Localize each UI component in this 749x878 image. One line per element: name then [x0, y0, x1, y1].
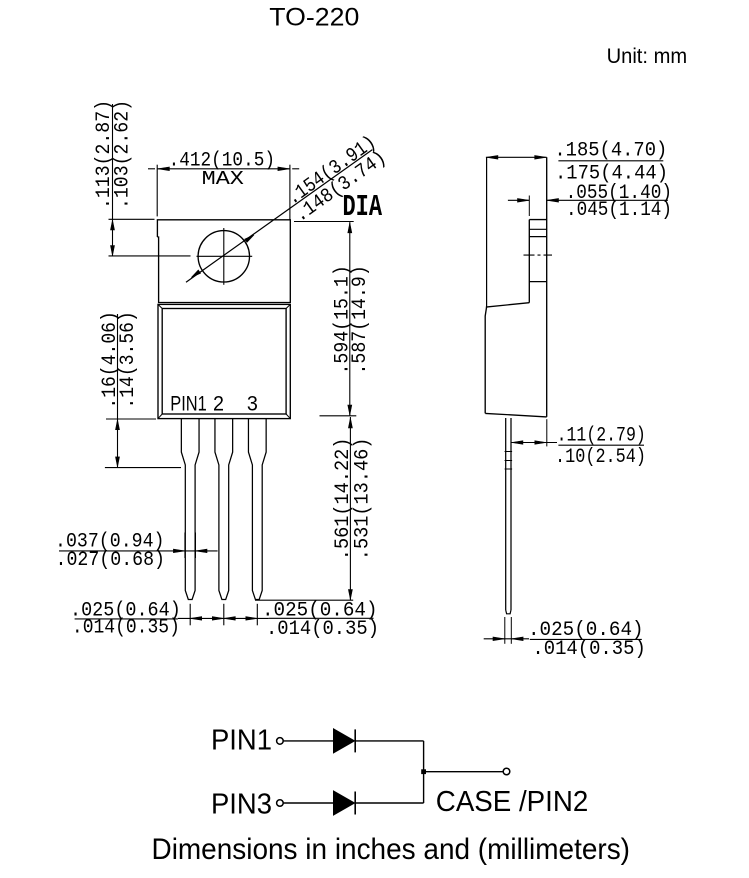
svg-text:3: 3 [247, 392, 258, 415]
svg-text:.014(0.35): .014(0.35) [72, 617, 180, 640]
svg-text:TO-220: TO-220 [269, 4, 359, 32]
svg-text:.587(14.9): .587(14.9) [349, 265, 372, 374]
svg-text:PIN1: PIN1 [211, 724, 272, 756]
svg-text:Unit: mm: Unit: mm [607, 45, 688, 68]
svg-text:DIA: DIA [343, 190, 383, 225]
svg-text:.185(4.70): .185(4.70) [554, 139, 667, 162]
svg-text:.14(3.56): .14(3.56) [117, 311, 140, 408]
svg-text:PIN1: PIN1 [170, 392, 207, 415]
svg-text:.027(0.68): .027(0.68) [56, 549, 166, 572]
svg-text:.10(2.54): .10(2.54) [555, 446, 646, 469]
svg-text:Dimensions in inches and (mill: Dimensions in inches and (millimeters) [152, 833, 631, 866]
svg-text:.045(1.14): .045(1.14) [566, 199, 672, 222]
svg-text:.014(0.35): .014(0.35) [532, 638, 645, 661]
svg-text:.11(2.79): .11(2.79) [557, 425, 646, 448]
svg-text:.014(0.35): .014(0.35) [266, 618, 379, 641]
svg-text:CASE /PIN2: CASE /PIN2 [436, 786, 589, 818]
svg-text:MAX: MAX [202, 168, 245, 190]
svg-text:.531(13.46): .531(13.46) [351, 438, 374, 561]
svg-text:.103(2.62): .103(2.62) [111, 100, 134, 209]
svg-text:2: 2 [213, 392, 224, 415]
svg-text:PIN3: PIN3 [211, 788, 272, 820]
